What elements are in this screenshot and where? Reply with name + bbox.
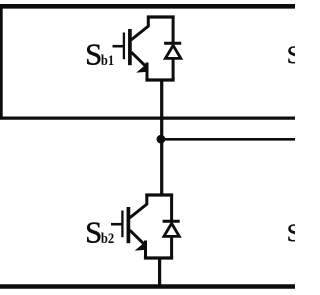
wire: Sb2 cell bottom rail: [144, 256, 173, 259]
wire: left bus drop (top bus to mid bus): [0, 4, 3, 119]
diode D1 (antiparallel with Sb1): [164, 16, 181, 81]
wire: bottom DC bus bar: [0, 284, 295, 289]
wire: bottom leg from Sb2 to bottom bus: [158, 257, 161, 287]
diode D2 (antiparallel with Sb2): [163, 194, 180, 259]
svg-text:b2: b2: [101, 231, 114, 247]
svg-text:b1: b1: [101, 53, 114, 69]
node: junction dot: [157, 135, 166, 144]
transistor Sb1 (IGBT): [113, 16, 149, 81]
svg-text:S: S: [85, 216, 102, 250]
wire: top DC bus bar: [0, 4, 295, 9]
transistor Sb2 (IGBT): [111, 194, 147, 259]
wire: output line from node to right edge: [161, 138, 295, 141]
wire: vertical leg between Sb1 and Sb2: [160, 79, 163, 197]
wire: Sb1 cell top rail: [147, 15, 175, 18]
wire: Sb1 cell bottom rail: [145, 78, 174, 81]
svg-text:S: S: [287, 42, 295, 69]
svg-text:S: S: [287, 220, 295, 247]
wire: middle horizontal bus: [0, 116, 295, 119]
wire: Sb2 cell top rail: [145, 193, 173, 196]
svg-text:S: S: [85, 37, 102, 71]
